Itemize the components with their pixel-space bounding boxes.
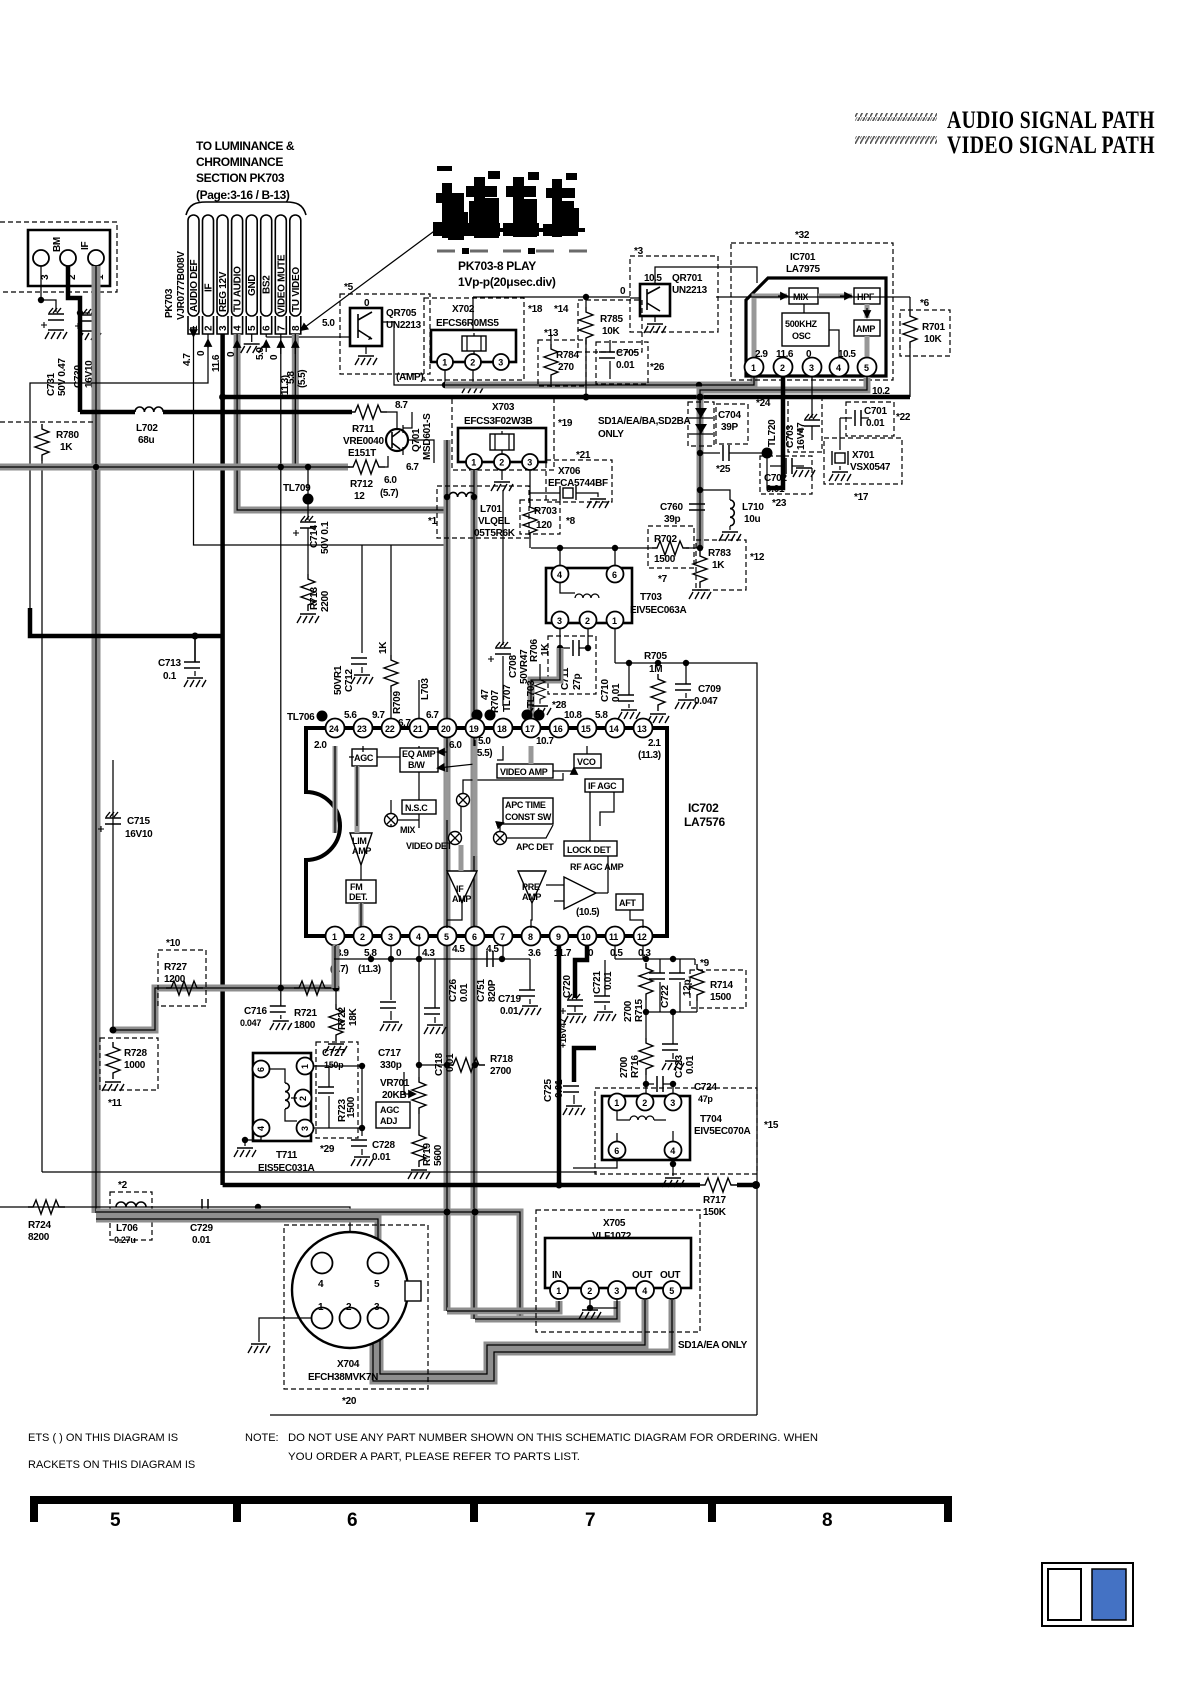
X705 pin 3 xyxy=(608,1281,626,1299)
svg-text:2700: 2700 xyxy=(619,1056,630,1078)
svg-text:L701: L701 xyxy=(480,504,502,515)
svg-text:50V 0.1: 50V 0.1 xyxy=(320,521,331,554)
svg-text:ADJ: ADJ xyxy=(380,1116,397,1126)
svg-text:R711: R711 xyxy=(352,424,375,435)
svg-text:LOCK DET: LOCK DET xyxy=(567,845,611,855)
svg-text:2: 2 xyxy=(585,616,590,626)
svg-text:BM: BM xyxy=(52,237,63,252)
T704 pin 3 xyxy=(665,1094,682,1111)
capacitor C719 0.01 xyxy=(529,959,531,990)
legend: audio signal path swatch xyxy=(855,113,937,121)
svg-text:4.5: 4.5 xyxy=(452,944,465,955)
svg-text:3: 3 xyxy=(498,358,503,368)
svg-text:TL707: TL707 xyxy=(502,684,513,712)
svg-text:C728: C728 xyxy=(372,1140,395,1151)
svg-text:(5.7): (5.7) xyxy=(380,488,398,499)
X704 pin 1 xyxy=(312,1308,333,1329)
dashed box X704 *20 xyxy=(284,1225,428,1389)
svg-text:3: 3 xyxy=(40,274,51,280)
wire: pin1 AUDIO DEF down and right xyxy=(194,334,448,545)
svg-text:*32: *32 xyxy=(795,230,810,241)
wire pin2/3/4 stub row xyxy=(332,946,339,988)
svg-text:(5.5): (5.5) xyxy=(297,370,308,388)
svg-text:18K: 18K xyxy=(348,1007,359,1026)
svg-text:(11.3): (11.3) xyxy=(638,750,661,761)
transistor QR705 UN2213 xyxy=(350,308,382,346)
svg-text:2700: 2700 xyxy=(490,1066,512,1077)
svg-text:6.7: 6.7 xyxy=(398,718,411,729)
svg-text:0.01: 0.01 xyxy=(459,983,470,1002)
svg-text:*7: *7 xyxy=(658,574,668,585)
svg-text:MIX: MIX xyxy=(400,825,415,835)
video band X703 pin1 down xyxy=(471,470,478,1319)
svg-text:DO NOT USE ANY PART NUMBER SHO: DO NOT USE ANY PART NUMBER SHOWN ON THIS… xyxy=(288,1432,818,1444)
IC702 FM DET block xyxy=(346,880,376,903)
wire y=453 with C704 xyxy=(700,452,720,454)
IC701 internal signal path xyxy=(754,296,787,358)
capacitor C727 xyxy=(313,1065,329,1067)
IC702 bottom pins 1..12 xyxy=(326,927,345,946)
svg-text:R703: R703 xyxy=(534,506,557,517)
resistor R717 150K xyxy=(700,1178,737,1192)
svg-text:*18: *18 xyxy=(528,304,543,315)
svg-text:0.01: 0.01 xyxy=(372,1152,391,1163)
svg-text:5: 5 xyxy=(669,1286,674,1296)
svg-text:C751: C751 xyxy=(476,979,487,1002)
video bands into X705 xyxy=(447,1301,559,1311)
svg-text:7: 7 xyxy=(585,1510,596,1531)
svg-text:5: 5 xyxy=(110,1510,121,1531)
svg-text:0.047: 0.047 xyxy=(694,696,718,707)
svg-text:*21: *21 xyxy=(576,450,591,461)
IC701 pin 3 xyxy=(803,358,822,377)
resistor R780 1K xyxy=(35,424,49,461)
resistor R728 1000 xyxy=(106,1042,120,1079)
svg-text:*11: *11 xyxy=(108,1098,122,1109)
X705 pin 5 xyxy=(663,1281,681,1299)
svg-text:C719: C719 xyxy=(498,994,521,1005)
svg-text:TU VIDEO: TU VIDEO xyxy=(291,267,302,312)
dashed box X701 *17 xyxy=(824,438,902,484)
resistor R727 1200 xyxy=(166,981,203,995)
svg-text:R714: R714 xyxy=(710,980,733,991)
capacitor C709 0.047 xyxy=(685,663,687,684)
capacitor C724 47p xyxy=(646,1083,654,1085)
wire: pin2 IF down xyxy=(30,334,208,633)
ceramic filter X702 EFCS6R0MS5 xyxy=(431,330,516,362)
svg-text:QR701: QR701 xyxy=(672,273,703,284)
svg-text:1: 1 xyxy=(612,616,617,626)
svg-text:VSX0547: VSX0547 xyxy=(850,462,891,473)
svg-text:APC DET: APC DET xyxy=(516,842,554,852)
capacitor C712 50VR1 xyxy=(361,545,363,653)
svg-text:5.8: 5.8 xyxy=(595,710,608,721)
wire T703 pin1 down to R705 line xyxy=(614,628,616,663)
svg-text:3: 3 xyxy=(374,1302,380,1313)
svg-text:SD1A/EA/BA,SD2BA: SD1A/EA/BA,SD2BA xyxy=(598,416,691,427)
svg-text:EFCH38MVK7N: EFCH38MVK7N xyxy=(308,1372,378,1383)
svg-text:*20: *20 xyxy=(342,1396,357,1407)
svg-text:T703: T703 xyxy=(640,592,662,603)
line y=297 across top xyxy=(473,296,630,298)
svg-text:1Vp-p(20μsec.div): 1Vp-p(20μsec.div) xyxy=(458,275,556,289)
svg-text:1K: 1K xyxy=(60,442,73,453)
svg-text:*29: *29 xyxy=(320,1144,335,1155)
svg-text:10u: 10u xyxy=(744,514,761,525)
wire: pin5 GND xyxy=(251,334,253,342)
ceramic filter X703 EFCS3F02W3B xyxy=(458,428,546,462)
svg-text:R712: R712 xyxy=(350,479,373,490)
svg-text:6.7: 6.7 xyxy=(426,710,439,721)
svg-text:39P: 39P xyxy=(721,422,739,433)
capacitor 12p xyxy=(679,959,681,973)
svg-text:R706: R706 xyxy=(529,639,540,662)
svg-text:TU AUDIO: TU AUDIO xyxy=(233,266,244,312)
svg-text:VRE0040: VRE0040 xyxy=(343,436,384,447)
svg-text:2: 2 xyxy=(587,1286,592,1296)
svg-text:5.8: 5.8 xyxy=(286,371,297,384)
T703 pin 2 xyxy=(580,612,597,629)
resistor R712 12 xyxy=(348,460,385,474)
dashed box C701 *22 xyxy=(846,402,894,436)
connector PK703 brace xyxy=(186,202,306,215)
svg-text:EIV5EC063A: EIV5EC063A xyxy=(630,605,687,616)
svg-text:MSD601-S: MSD601-S xyxy=(422,413,433,460)
svg-text:R728: R728 xyxy=(124,1048,147,1059)
svg-text:IC701: IC701 xyxy=(790,252,816,263)
audio band X702 out to IC701 pin1 xyxy=(445,362,754,385)
crystal X701 VSX0547 xyxy=(839,418,841,450)
page icon outer xyxy=(1042,1563,1133,1626)
transistor Q701 MSD601-S xyxy=(387,412,397,429)
IC702 VIDEO AMP block xyxy=(497,764,553,778)
T704 pin4 ground xyxy=(672,1158,674,1176)
svg-text:X705: X705 xyxy=(603,1218,626,1229)
T711 pin 4 xyxy=(253,1120,270,1137)
dashed box L706 *2 xyxy=(110,1192,152,1240)
svg-text:E151T: E151T xyxy=(348,448,376,459)
svg-text:150K: 150K xyxy=(703,1207,727,1218)
svg-text:47p: 47p xyxy=(698,1094,713,1104)
capacitor C714 50V 0.1 xyxy=(293,516,316,536)
wires T711 right to C728 xyxy=(313,1066,362,1136)
wire pin3 to C717 xyxy=(390,946,392,1000)
svg-text:0.01: 0.01 xyxy=(766,484,785,495)
svg-text:R719: R719 xyxy=(422,1143,433,1166)
svg-text:IF AGC: IF AGC xyxy=(588,781,617,791)
svg-text:3: 3 xyxy=(218,325,229,331)
bottom rail of page block xyxy=(270,1414,757,1416)
svg-text:1: 1 xyxy=(300,1064,310,1069)
test point TL703 xyxy=(522,710,533,721)
svg-text:LA7576: LA7576 xyxy=(684,815,726,829)
wire pins 11,12 row xyxy=(615,946,643,959)
IC701 HPF block xyxy=(854,288,880,304)
svg-text:AUDIO DEF: AUDIO DEF xyxy=(189,260,200,312)
capacitor C751 820P xyxy=(487,951,493,967)
svg-text:1: 1 xyxy=(751,363,756,373)
svg-text:R785: R785 xyxy=(600,314,623,325)
svg-text:24: 24 xyxy=(329,724,339,734)
svg-text:*25: *25 xyxy=(716,464,731,475)
svg-text:SD1A/EA ONLY: SD1A/EA ONLY xyxy=(678,1340,748,1351)
dashed box C704 xyxy=(716,404,748,444)
svg-text:EFCA5744BF: EFCA5744BF xyxy=(548,478,608,489)
svg-text:9: 9 xyxy=(556,932,561,942)
svg-text:330p: 330p xyxy=(380,1060,402,1071)
diode pair xyxy=(695,408,707,418)
svg-text:AMP: AMP xyxy=(522,892,541,902)
waveform photo PK703-8 xyxy=(433,166,585,240)
capacitor C723 0.01 xyxy=(672,1012,674,1044)
svg-text:(10.5): (10.5) xyxy=(576,907,599,918)
capacitor C703 16V47 xyxy=(811,377,813,418)
capacitor C731 xyxy=(41,308,64,328)
svg-text:1: 1 xyxy=(471,458,476,468)
svg-text:10K: 10K xyxy=(924,334,943,345)
video band through X703 column xyxy=(444,440,451,1311)
svg-text:5600: 5600 xyxy=(433,1144,444,1166)
svg-text:T704: T704 xyxy=(700,1114,722,1125)
IC702 EQ AMP B/W block xyxy=(400,748,438,772)
svg-text:2: 2 xyxy=(298,1096,308,1101)
svg-text:23: 23 xyxy=(357,724,367,734)
IC702 LIM AMP xyxy=(350,833,372,865)
svg-text:1: 1 xyxy=(442,358,447,368)
wire pin4 to VR701 xyxy=(418,946,420,1065)
svg-text:*24: *24 xyxy=(756,398,771,409)
svg-text:4: 4 xyxy=(670,1146,675,1156)
left connector dashed box xyxy=(0,222,117,292)
svg-text:NOTE:: NOTE: xyxy=(245,1432,279,1444)
svg-text:T711: T711 xyxy=(276,1150,298,1161)
wire QR701 to IC701 xyxy=(655,267,757,284)
svg-text:1: 1 xyxy=(614,1098,619,1108)
svg-text:R701: R701 xyxy=(922,322,945,333)
svg-text:FM: FM xyxy=(350,882,362,892)
svg-text:820P: 820P xyxy=(487,979,498,1002)
thick left rail down xyxy=(220,397,225,1185)
svg-text:16V10: 16V10 xyxy=(125,829,153,840)
resistor R709 1K xyxy=(390,545,392,655)
X704 pin 5 xyxy=(368,1253,389,1274)
svg-text:22: 22 xyxy=(385,724,395,734)
svg-text:R702: R702 xyxy=(654,534,677,545)
svg-text:*5: *5 xyxy=(344,282,354,293)
svg-text:TO LUMINANCE &: TO LUMINANCE & xyxy=(196,139,295,153)
svg-text:TL706: TL706 xyxy=(287,712,315,723)
svg-text:2.1: 2.1 xyxy=(648,738,661,749)
svg-text:*9: *9 xyxy=(700,958,710,969)
svg-text:C704: C704 xyxy=(718,410,741,421)
svg-text:27p: 27p xyxy=(572,673,583,690)
svg-text:270: 270 xyxy=(558,362,575,373)
connector PK703 pin slots xyxy=(188,215,301,334)
dashed box IC701 LA7975 *32 xyxy=(731,243,893,380)
T711 pin 2 xyxy=(295,1090,312,1107)
svg-text:R783: R783 xyxy=(708,548,731,559)
IC701 pin 2 xyxy=(774,358,793,377)
svg-text:150p: 150p xyxy=(324,1060,344,1070)
IC702 APC TIME CONST SW block xyxy=(503,798,553,824)
audio band bottom elbows xyxy=(96,1212,520,1319)
resistor R706 1K xyxy=(539,664,541,676)
resistor R713 2200 xyxy=(301,574,315,611)
svg-text:6: 6 xyxy=(262,325,273,331)
T704 pin 2 xyxy=(637,1094,654,1111)
X705 pin2 ground xyxy=(590,1299,617,1308)
svg-text:18: 18 xyxy=(497,724,507,734)
resistor R715 2700 xyxy=(639,963,653,1000)
thick bottom rail with R717 xyxy=(223,1183,700,1188)
resistor R716 2700 xyxy=(645,1012,647,1038)
resistor R714 1500 xyxy=(694,959,696,965)
svg-text:1: 1 xyxy=(556,1286,561,1296)
svg-text:AMP: AMP xyxy=(352,846,371,856)
wire: IF audio path from pin1 down left edge xyxy=(92,266,101,1213)
svg-text:(Page:3-16 / B-13): (Page:3-16 / B-13) xyxy=(196,188,290,202)
capacitor C729 0.01 xyxy=(202,1199,208,1215)
QR705 collector wire to X702 pin1 xyxy=(382,322,445,385)
resistor R785 10K xyxy=(585,297,587,307)
svg-text:TL720: TL720 xyxy=(767,419,778,447)
svg-text:0.047: 0.047 xyxy=(240,1018,261,1028)
dashed box C727 *29 xyxy=(316,1042,358,1138)
svg-text:TL703: TL703 xyxy=(526,680,537,708)
svg-text:C705: C705 xyxy=(616,348,639,359)
svg-text:L706: L706 xyxy=(116,1223,138,1234)
transformer T704 EIV5EC070A xyxy=(602,1096,690,1160)
svg-text:R705: R705 xyxy=(644,651,667,662)
X703 pin 1 xyxy=(466,454,482,470)
svg-text:2.9: 2.9 xyxy=(755,349,768,360)
filter X705 VLF1072 body xyxy=(545,1238,691,1288)
svg-text:2: 2 xyxy=(470,358,475,368)
svg-text:4: 4 xyxy=(642,1286,647,1296)
resistor R703 120 xyxy=(529,470,531,502)
svg-text:10.8: 10.8 xyxy=(564,710,582,721)
T711 pin 1 xyxy=(297,1058,314,1075)
X704 pin 4 xyxy=(312,1253,333,1274)
capacitor C722 xyxy=(659,959,661,973)
dashed box R702 *7 xyxy=(648,526,694,568)
T703 pin 3 xyxy=(552,612,569,629)
inductor L710 10u xyxy=(700,490,730,500)
svg-text:VJR0777B008V: VJR0777B008V xyxy=(176,251,187,320)
svg-text:6.7: 6.7 xyxy=(406,462,419,473)
dashed box X702 xyxy=(424,298,524,380)
X705 pin 2 xyxy=(581,1281,599,1299)
IC702 VIDEO DET mixer xyxy=(449,832,462,845)
svg-text:1M: 1M xyxy=(649,664,662,675)
svg-text:PRE: PRE xyxy=(522,882,540,892)
IC701 AMP block xyxy=(854,320,880,336)
capacitor C730 xyxy=(80,312,90,314)
wire: pin7 VIDEO MUTE stub xyxy=(280,334,282,467)
svg-text:1200: 1200 xyxy=(164,974,186,985)
IC702 APC mixer upper xyxy=(457,794,470,807)
IC701 body xyxy=(746,278,886,376)
IC702 LOCK DET block xyxy=(564,841,617,856)
svg-text:5.0: 5.0 xyxy=(255,347,266,360)
T703 pin 1 xyxy=(607,612,624,629)
svg-text:6: 6 xyxy=(614,1146,619,1156)
svg-text:10K: 10K xyxy=(602,326,621,337)
svg-text:R780: R780 xyxy=(56,430,79,441)
svg-text:*12: *12 xyxy=(750,552,765,563)
svg-text:0.01: 0.01 xyxy=(500,1006,519,1017)
svg-text:R722: R722 xyxy=(337,1007,348,1030)
resistor R784 270 xyxy=(544,344,558,381)
wire bottom feed line xyxy=(0,1207,350,1307)
svg-text:C717: C717 xyxy=(378,1048,401,1059)
svg-text:IN: IN xyxy=(552,1270,561,1281)
svg-text:QR705: QR705 xyxy=(386,308,417,319)
svg-text:C718: C718 xyxy=(434,1053,445,1076)
svg-text:C708: C708 xyxy=(508,655,519,678)
svg-text:L710: L710 xyxy=(742,502,764,513)
wire: pin4 TU AUDIO band down xyxy=(237,334,447,510)
svg-text:L702: L702 xyxy=(136,423,158,434)
svg-text:5.0: 5.0 xyxy=(478,736,491,747)
svg-text:8: 8 xyxy=(822,1510,833,1531)
capacitor C720 16V47 xyxy=(575,946,587,998)
T711 pin 3 xyxy=(297,1120,314,1137)
svg-text:*15: *15 xyxy=(764,1120,779,1131)
svg-text:9.7: 9.7 xyxy=(372,710,385,721)
svg-text:C724: C724 xyxy=(694,1082,717,1093)
svg-text:IC702: IC702 xyxy=(688,801,719,815)
dashed box diode pair *24 xyxy=(688,402,714,446)
dashed box X706 *21 xyxy=(546,460,612,502)
capacitor C760 39p xyxy=(689,504,705,510)
svg-text:3: 3 xyxy=(527,458,532,468)
svg-text:2: 2 xyxy=(204,325,215,331)
svg-text:12: 12 xyxy=(637,932,647,942)
T704 pin 1 xyxy=(609,1094,626,1111)
svg-text:2700: 2700 xyxy=(623,1000,634,1022)
IC701 pin 5 xyxy=(858,358,877,377)
wire merge row y=1012 xyxy=(646,1000,697,1012)
waveform pointer arrow to pin 8 xyxy=(301,229,437,330)
IC701 osc wires xyxy=(803,304,805,313)
wire: pin3 REG12V thick down xyxy=(220,334,225,397)
T703 winding xyxy=(560,583,575,593)
X702 top wire to line y=297 xyxy=(472,297,474,330)
svg-text:11: 11 xyxy=(609,932,618,942)
svg-text:EFCS3F02W3B: EFCS3F02W3B xyxy=(464,416,532,427)
svg-text:PK703-8 PLAY: PK703-8 PLAY xyxy=(458,259,536,273)
svg-text:IF: IF xyxy=(456,884,464,894)
svg-text:X706: X706 xyxy=(558,466,581,477)
svg-text:3: 3 xyxy=(388,932,393,942)
resistor R719 5600 xyxy=(412,1130,426,1167)
capacitor C728 0.01 xyxy=(351,1140,367,1146)
transformer T711 EIS5EC031A xyxy=(253,1053,311,1141)
svg-text:20: 20 xyxy=(441,724,451,734)
svg-text:DET.: DET. xyxy=(349,892,367,902)
IC701 pin 1 xyxy=(745,358,764,377)
svg-text:C722: C722 xyxy=(660,985,671,1008)
svg-text:4.7: 4.7 xyxy=(182,353,193,366)
svg-text:IF: IF xyxy=(204,284,215,292)
svg-text:0.5: 0.5 xyxy=(610,948,623,959)
X702 pin 3 xyxy=(493,354,509,370)
resistor R711 VRE0040 E151T xyxy=(350,405,387,419)
resistor R721 1800 xyxy=(294,981,331,995)
resistor R722 18K xyxy=(335,988,337,1004)
svg-text:C729: C729 xyxy=(190,1223,213,1234)
